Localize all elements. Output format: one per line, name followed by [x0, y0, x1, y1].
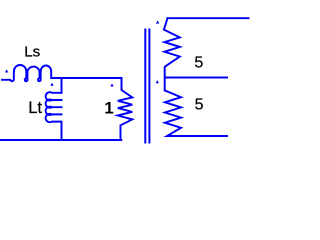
phase dot Lt: [50, 83, 53, 86]
svg-text:5: 5: [195, 97, 204, 114]
svg-text:Ls: Ls: [24, 43, 40, 60]
wire: T-junction drop to Lt: [61, 78, 63, 93]
phase dot winding 1: [110, 83, 113, 86]
inductor Ls (series leakage, 3 tall arches with foot loops): [2, 65, 51, 81]
wire: top horizontal from Ls to primary corner: [52, 77, 122, 79]
winding 1 (primary, zigzag): [118, 78, 133, 140]
phase dot bottom secondary: [156, 80, 159, 83]
phase dot top secondary: [156, 21, 159, 24]
phase dot Ls: [5, 69, 8, 72]
wire: secondary top rail: [168, 17, 249, 19]
wire: bottom horizontal rail: [1, 139, 121, 141]
svg-text:1: 1: [104, 98, 113, 117]
svg-text:Lt: Lt: [28, 99, 42, 117]
wire: center-tap middle rail: [165, 77, 227, 79]
svg-text:5: 5: [194, 55, 203, 72]
inductor Lt (shunt magnetizing, 4 left loops): [46, 92, 62, 140]
winding 5 (bottom secondary, zigzag): [165, 91, 227, 137]
winding 5 (top secondary, zigzag): [164, 18, 180, 90]
core (two vertical lines): [144, 30, 146, 143]
